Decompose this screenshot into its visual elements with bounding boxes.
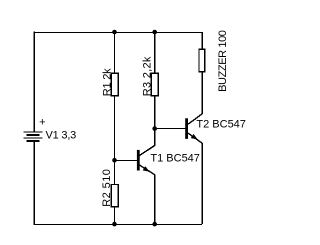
- svg-text:+: +: [39, 117, 45, 129]
- svg-text:T2 BC547: T2 BC547: [196, 119, 246, 131]
- svg-text:R1 2k: R1 2k: [101, 68, 113, 96]
- svg-text:R2 510: R2 510: [101, 169, 113, 207]
- svg-text:BUZZER 100: BUZZER 100: [217, 30, 229, 92]
- svg-text:T1 BC547: T1 BC547: [150, 153, 200, 165]
- svg-text:R3 2,2k: R3 2,2k: [141, 56, 153, 96]
- svg-text:V1 3,3: V1 3,3: [46, 129, 77, 141]
